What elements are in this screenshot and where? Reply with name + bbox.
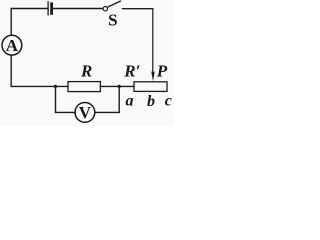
switch S pivot circle [103, 7, 107, 11]
svg-text:R: R [80, 61, 92, 80]
wire voltmeter branch right vertical [118, 86, 120, 112]
svg-text:P: P [156, 62, 168, 81]
svg-text:A: A [6, 36, 19, 55]
rheostat R' box [134, 82, 167, 92]
wire top-left to battery [11, 8, 47, 10]
svg-text:V: V [79, 103, 92, 122]
battery cell E : thick short plate [50, 4, 53, 14]
battery cell E : thin long plate [47, 2, 49, 15]
wire voltmeter branch bottom-left horizontal [56, 111, 76, 113]
wire voltmeter branch bottom-right horizontal [95, 111, 119, 113]
junction node left (R / voltmeter) [54, 85, 57, 88]
wire bottom left to resistor R [11, 85, 68, 87]
switch S lever [107, 1, 120, 7]
wire right side down to slider [152, 9, 154, 73]
svg-text:R′: R′ [123, 61, 140, 80]
voltmeter V circle [75, 103, 95, 123]
wire left side upper (corner to ammeter) [10, 9, 12, 36]
wire voltmeter branch left vertical [55, 86, 57, 112]
slider arrow P head [151, 72, 154, 82]
svg-text:b: b [147, 93, 155, 110]
resistor R box [68, 82, 100, 92]
junction node right (R / voltmeter) [118, 85, 121, 88]
svg-text:a: a [126, 93, 134, 110]
svg-text:S: S [108, 11, 117, 30]
wire switch to top-right corner [123, 8, 153, 10]
wire left side lower (ammeter to bottom corner) [10, 55, 12, 86]
svg-text:c: c [165, 93, 172, 110]
wire R to rheostat [100, 85, 134, 87]
ammeter A circle [2, 35, 22, 55]
wire battery to switch [53, 8, 102, 10]
